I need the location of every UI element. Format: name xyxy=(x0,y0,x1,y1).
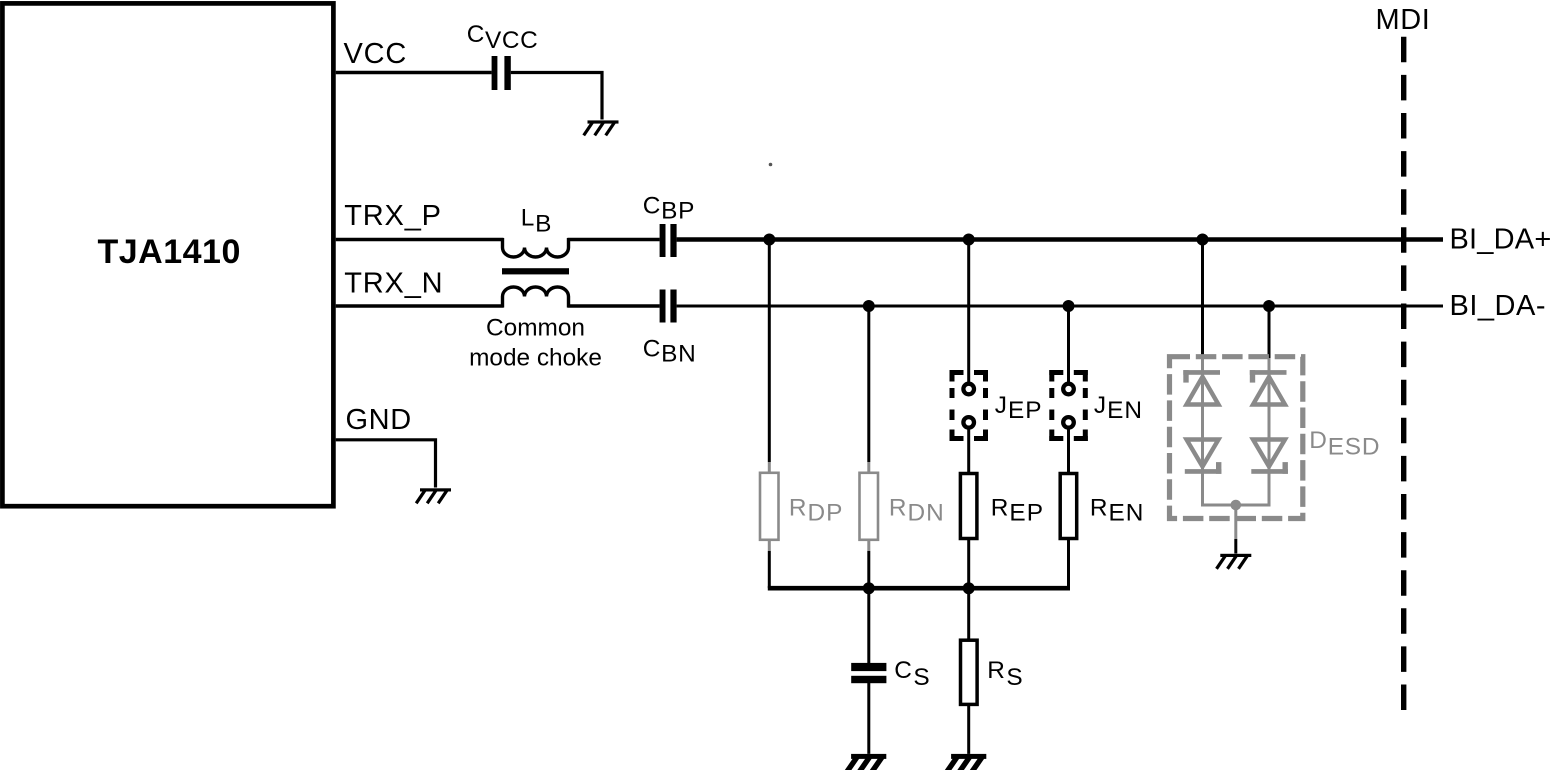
ground (CVCC) xyxy=(584,120,619,135)
capacitor CBN xyxy=(660,290,677,323)
pin label GND xyxy=(346,404,412,436)
diode pair left (DESD) xyxy=(1183,370,1221,474)
label DESD xyxy=(1309,427,1380,461)
diode pair right (DESD) xyxy=(1250,370,1288,474)
label JEP xyxy=(995,392,1043,424)
resistor REN xyxy=(1060,474,1077,539)
MDI dashed boundary line xyxy=(1401,37,1406,711)
wire BI_DA+ to RDP xyxy=(768,240,771,473)
node speck xyxy=(769,163,773,167)
wire bus to CS xyxy=(867,588,870,663)
wire REN to bus xyxy=(1067,540,1070,589)
wire TRX_P to choke xyxy=(336,238,504,241)
label JEN xyxy=(1094,392,1143,424)
node junction dot 6 xyxy=(1263,300,1275,312)
label LB xyxy=(521,205,552,238)
DESD dashed box xyxy=(1170,357,1303,519)
ground (RS) xyxy=(944,754,987,770)
label REN xyxy=(1090,495,1145,527)
node junction dot 5 xyxy=(1063,300,1075,312)
wire termination bus xyxy=(768,586,1070,591)
label CVCC xyxy=(467,21,539,54)
ground (DESD) xyxy=(1217,554,1252,569)
wire bus to RS xyxy=(967,588,970,640)
label RDP xyxy=(789,495,844,527)
svg-text:VCC: VCC xyxy=(344,38,408,70)
wire JEP to REP xyxy=(967,430,970,474)
label MDI xyxy=(1376,4,1431,36)
node DESD common (gray junction) xyxy=(1231,500,1242,511)
svg-text:BI_DA+: BI_DA+ xyxy=(1450,223,1551,255)
resistor REP xyxy=(960,474,977,539)
wire BI_DA+ to JEP xyxy=(967,240,970,383)
label Common mode choke xyxy=(469,314,602,371)
jumper JEN xyxy=(1049,370,1088,441)
resistor RS xyxy=(961,640,978,704)
wire TRX_N to choke xyxy=(336,304,504,307)
wire net BI_DA+ xyxy=(677,237,1443,241)
label CS xyxy=(894,657,931,691)
pin label TRX_N xyxy=(344,268,443,300)
wire GND pin to ground xyxy=(336,440,436,488)
pin label TRX_P xyxy=(344,200,441,232)
ground (GND pin) xyxy=(416,488,451,503)
DESD internal wire left xyxy=(1201,358,1204,505)
label CBN xyxy=(643,335,697,367)
svg-text:TRX_N: TRX_N xyxy=(344,268,443,300)
DESD bottom rail xyxy=(1201,504,1271,507)
wire BI_DA+ to DESD left column xyxy=(1201,240,1204,359)
svg-text:GND: GND xyxy=(346,404,412,436)
label CBP xyxy=(643,192,696,224)
capacitor CBP xyxy=(660,224,677,257)
wire RDN to bus xyxy=(867,541,870,589)
label REP xyxy=(991,495,1044,527)
label RS xyxy=(987,657,1024,691)
wire JEN to REN xyxy=(1067,430,1070,474)
resistor RDN xyxy=(860,473,879,540)
svg-text:MDI: MDI xyxy=(1376,4,1431,36)
capacitor CS xyxy=(851,663,886,683)
label BI_DA- xyxy=(1450,290,1546,322)
svg-text:TRX_P: TRX_P xyxy=(344,200,441,232)
pin label VCC xyxy=(344,38,408,70)
node junction dot 4 xyxy=(863,300,875,312)
wire CS to ground xyxy=(867,683,870,754)
svg-text:Common: Common xyxy=(486,314,585,341)
wire VCC pin to CVCC xyxy=(336,71,492,74)
node junction dot 3 xyxy=(1197,234,1209,246)
wire BI_DA- to RDN xyxy=(867,306,870,472)
resistor RDP xyxy=(760,473,779,540)
jumper JEP xyxy=(950,370,989,441)
wire CVCC to ground xyxy=(511,73,602,120)
svg-text:mode choke: mode choke xyxy=(469,345,602,372)
wire REP to bus xyxy=(967,540,970,589)
node junction dot 1 xyxy=(763,234,775,246)
svg-text:BI_DA-: BI_DA- xyxy=(1450,290,1546,322)
IC U1 TJA1410 xyxy=(2,3,333,506)
svg-text:TJA1410: TJA1410 xyxy=(98,233,241,271)
DESD internal wire right xyxy=(1268,358,1271,505)
common mode choke core bar xyxy=(502,268,569,274)
wire BI_DA- to JEN xyxy=(1067,306,1070,382)
ground (CS) xyxy=(844,754,887,770)
common mode choke LB top winding xyxy=(503,238,569,257)
wire choke to CBP xyxy=(568,238,660,241)
node junction dot 7 xyxy=(863,582,875,594)
label BI_DA+ xyxy=(1450,223,1551,255)
capacitor CVCC xyxy=(492,56,511,90)
wire RS to ground xyxy=(967,706,970,754)
node junction dot 2 xyxy=(963,234,975,246)
wire net BI_DA- xyxy=(677,305,1443,308)
label RDN xyxy=(889,495,945,527)
wire choke to CBN xyxy=(568,304,660,307)
wire BI_DA- to DESD right column xyxy=(1268,306,1271,358)
node junction dot 8 xyxy=(963,582,975,594)
wire DESD common to ground xyxy=(1234,505,1237,554)
common mode choke LB bottom winding xyxy=(503,287,569,308)
label TJA1410 xyxy=(98,233,241,271)
wire RDP to bus xyxy=(768,541,771,589)
